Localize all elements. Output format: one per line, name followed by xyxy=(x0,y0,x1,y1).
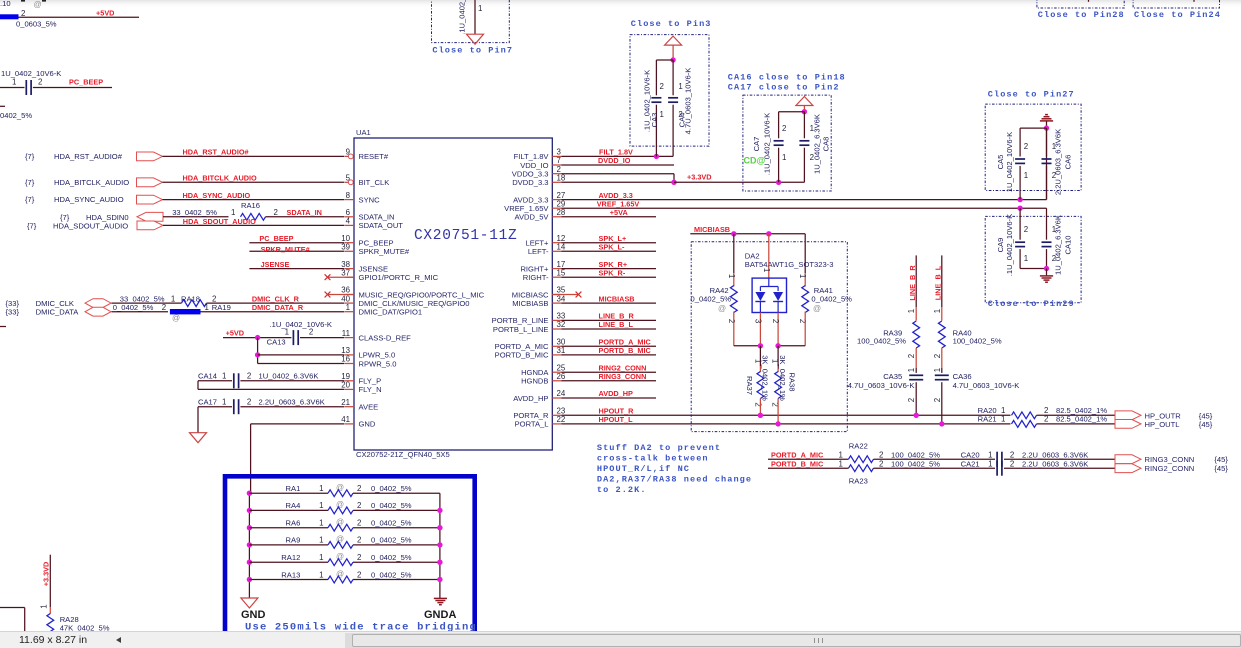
RA41 pin1 stub xyxy=(804,273,806,287)
IC pin 9 RESET# (left) xyxy=(345,155,348,157)
RA39 pin2 stub xyxy=(915,348,917,368)
wire CA20 to connector xyxy=(1004,458,1115,460)
svg-text:2: 2 xyxy=(907,398,916,402)
wire CA4 lower xyxy=(672,105,674,157)
svg-text:CA5: CA5 xyxy=(996,155,1005,170)
svg-text:1: 1 xyxy=(907,309,916,313)
svg-text:1: 1 xyxy=(839,459,843,468)
svg-text:RA16: RA16 xyxy=(241,201,260,210)
svg-text:RIGHT-: RIGHT- xyxy=(523,273,549,282)
wire CA9/CA10 bottoms xyxy=(1020,268,1046,270)
junction +5VD/CA13 xyxy=(255,335,260,340)
resistor RA42 xyxy=(730,286,737,313)
wire RA39 to CA35 xyxy=(915,368,917,373)
IC pin 29 VREF_1.65V (right) xyxy=(552,207,561,209)
svg-text:CA8: CA8 xyxy=(822,137,831,152)
IC pin 6 SDATA_IN (left) xyxy=(345,216,354,218)
svg-text:1U_0402_10V6-K: 1U_0402_10V6-K xyxy=(1005,132,1014,192)
svg-text:2: 2 xyxy=(21,9,25,18)
wire CA9 lower xyxy=(1019,249,1021,268)
svg-text:1: 1 xyxy=(933,368,942,372)
horizontal scrollbar xyxy=(345,633,1241,648)
wire RA41 to DA2-2 join xyxy=(778,345,805,347)
junction CA5/CA6 top xyxy=(1044,125,1049,130)
wire GNDA bus right xyxy=(439,493,441,598)
svg-text:2: 2 xyxy=(247,372,251,381)
wire CA5 upper xyxy=(1019,128,1021,156)
svg-text:HPOUT_L: HPOUT_L xyxy=(599,415,634,424)
svg-text:SPKR_MUTE#: SPKR_MUTE# xyxy=(261,245,310,254)
svg-text:1: 1 xyxy=(839,450,843,459)
svg-text:1: 1 xyxy=(222,398,226,407)
svg-text:1: 1 xyxy=(319,484,323,493)
no-connect X pin 36 xyxy=(325,292,331,298)
svg-text:0_0402_5%: 0_0402_5% xyxy=(371,536,412,545)
svg-text:41: 41 xyxy=(341,415,350,424)
wire CA10 upper xyxy=(1046,208,1048,240)
cut-off component stub at left edge xyxy=(0,105,5,107)
junction CA5 bottom xyxy=(1017,197,1022,202)
power stem xyxy=(672,45,674,60)
wire to ground xyxy=(474,0,476,34)
svg-text:1: 1 xyxy=(12,78,16,87)
svg-text:2: 2 xyxy=(771,319,780,323)
wire CA4 upper xyxy=(672,60,674,95)
resistor RA19 (selected, thick blue) xyxy=(170,309,201,314)
capacitor CA13 xyxy=(292,330,294,345)
capacitor CA6 xyxy=(1042,158,1052,160)
junction LPWR xyxy=(255,352,260,357)
svg-text:CLASS-D_REF: CLASS-D_REF xyxy=(359,333,412,342)
svg-text:2: 2 xyxy=(1024,142,1028,151)
svg-text:PORTA_L: PORTA_L xyxy=(515,420,549,429)
junction RA13 left xyxy=(247,577,252,582)
svg-text:VDD_IO: VDD_IO xyxy=(520,161,548,170)
svg-text:20: 20 xyxy=(341,381,350,390)
svg-text:CX20751-11Z: CX20751-11Z xyxy=(414,228,517,244)
IC pin 18 DVDD_3.3 (right) xyxy=(552,181,561,183)
svg-text:{45}: {45} xyxy=(1199,420,1213,429)
svg-text:4.7U_0603_10V6-K: 4.7U_0603_10V6-K xyxy=(684,68,693,135)
svg-text:0_0402_5%: 0_0402_5% xyxy=(113,303,154,312)
IC pin 38 JSENSE (left) xyxy=(345,268,354,270)
svg-text:2: 2 xyxy=(162,303,166,312)
svg-text:2: 2 xyxy=(1010,450,1014,459)
dashed box Close to Pin28 (cut) xyxy=(1037,0,1124,8)
off-page connector HDA_RST_AUDIO# xyxy=(137,152,163,161)
svg-text:2.2U_0603_6.3V6K: 2.2U_0603_6.3V6K xyxy=(259,398,325,407)
ground GND xyxy=(241,598,258,608)
svg-text:DMIC_DAT/GPIO1: DMIC_DAT/GPIO1 xyxy=(359,308,423,317)
svg-text:47K_0402_5%: 47K_0402_5% xyxy=(60,624,110,631)
svg-text:100_0402_5%: 100_0402_5% xyxy=(891,459,940,468)
svg-text:1: 1 xyxy=(1024,254,1028,263)
dashed box CA9/CA10 xyxy=(985,216,1081,302)
capacitor CA4 xyxy=(668,97,678,99)
svg-text:CA17 close to Pin2: CA17 close to Pin2 xyxy=(728,82,840,92)
wire down to ground xyxy=(197,407,199,433)
svg-text:RA13: RA13 xyxy=(281,570,300,579)
junction RA38/HPOUT_L xyxy=(775,421,780,426)
IC pin 11 CLASS-D_REF (left) xyxy=(345,337,354,339)
svg-text:RA21: RA21 xyxy=(978,415,997,424)
svg-text:PORTD_A_MIC: PORTD_A_MIC xyxy=(771,450,824,459)
svg-text:CA35: CA35 xyxy=(883,372,902,381)
svg-text:PORTD_B_MIC: PORTD_B_MIC xyxy=(771,459,824,468)
capacitor CA36 xyxy=(935,374,949,376)
wire CA5 lower xyxy=(1019,166,1021,200)
wire MICBIASB bus xyxy=(690,233,805,235)
wire AVDD_3.3 xyxy=(561,199,1046,201)
svg-text:0_0402_5%: 0_0402_5% xyxy=(371,570,412,579)
svg-text:CA36: CA36 xyxy=(953,372,972,381)
resistor R10 selected body (thick blue bar) xyxy=(0,14,19,19)
svg-text:HDA_RST_AUDIO#: HDA_RST_AUDIO# xyxy=(54,152,123,161)
svg-text:.1U_0402_10V6-K: .1U_0402_10V6-K xyxy=(763,113,772,176)
wire CA3 upper xyxy=(655,60,657,95)
resistor RA22 xyxy=(849,456,874,463)
wire HDA_SDOUT_AUDIO xyxy=(163,224,345,226)
wire DMIC_CLK_R xyxy=(207,302,345,304)
svg-text:CA10: CA10 xyxy=(1064,236,1073,255)
svg-text:RING3_CONN: RING3_CONN xyxy=(599,372,647,381)
svg-text:9: 9 xyxy=(346,148,351,157)
svg-text:MICBIASB: MICBIASB xyxy=(694,225,730,234)
svg-text:3K_0402_1%: 3K_0402_1% xyxy=(778,355,787,401)
svg-text:1: 1 xyxy=(907,368,916,372)
svg-text:BIT_CLK: BIT_CLK xyxy=(359,178,390,187)
IC pin 21 AVEE (left) xyxy=(345,406,354,408)
svg-text:32: 32 xyxy=(557,320,566,329)
svg-text:GPIO1/PORTC_R_MIC: GPIO1/PORTC_R_MIC xyxy=(359,273,439,282)
cut-off component marks at top edge xyxy=(21,0,25,2)
no-connect X pin 37 xyxy=(325,274,331,280)
svg-text:RING2_CONN: RING2_CONN xyxy=(1145,464,1195,473)
capacitor CA35 xyxy=(909,374,923,376)
wire LINE_B_L stub xyxy=(561,328,656,330)
wire to cap pin 1 xyxy=(0,87,25,89)
svg-text:15: 15 xyxy=(557,268,566,277)
svg-text:4.7U_0603_10V6-K: 4.7U_0603_10V6-K xyxy=(953,381,1020,390)
svg-text:.1U_0402_10V6-K: .1U_0402_10V6-K xyxy=(270,320,333,329)
svg-text:1: 1 xyxy=(319,501,323,510)
svg-text:34: 34 xyxy=(557,294,566,303)
svg-text:Use 250mils wide trace bridgin: Use 250mils wide trace bridging xyxy=(245,622,477,632)
svg-text:Close to Pin29: Close to Pin29 xyxy=(988,299,1075,309)
IC pin 40 DMIC_CLK/MUSIC_REQ/GPIO0 (left) xyxy=(345,302,354,304)
off-page connector HP_OUTR xyxy=(1115,411,1141,420)
junction RA12 left xyxy=(247,560,252,565)
wire PORTD_B_MIC stub xyxy=(561,354,656,356)
svg-text:Close to Pin3: Close to Pin3 xyxy=(631,19,712,29)
svg-text:1: 1 xyxy=(782,153,786,162)
RA38 pin2 wire xyxy=(777,399,779,424)
cut cap stub in Pin24 box xyxy=(1193,0,1195,2)
wire CA6 bottom riser xyxy=(1046,128,1048,200)
diode DA2-B xyxy=(773,292,783,301)
wire DMIC_DATA_R xyxy=(201,311,345,313)
svg-text:@: @ xyxy=(718,304,726,313)
wire SPK_R+ xyxy=(561,268,656,270)
IC pin 30 PORTD_A_MIC (right) xyxy=(552,345,561,347)
capacitor CA5 xyxy=(1015,158,1025,160)
svg-text:AVDD_HP: AVDD_HP xyxy=(513,394,548,403)
wire GND bus left xyxy=(248,493,250,598)
svg-text:39: 39 xyxy=(341,243,350,252)
RA38 pin1 stub xyxy=(777,366,779,372)
svg-text:2: 2 xyxy=(357,519,361,528)
junction CA9 top xyxy=(1017,206,1022,211)
svg-text:+3.3VD: +3.3VD xyxy=(42,562,51,587)
svg-text:1U_0402_10V6-K: 1U_0402_10V6-K xyxy=(1,69,61,78)
IC pin 12 LEFT+ (right) xyxy=(552,242,561,244)
resistor RA40 xyxy=(938,321,945,348)
svg-text:{45}: {45} xyxy=(1214,464,1228,473)
junction +3.3VD xyxy=(671,180,676,185)
svg-text:RING3_CONN: RING3_CONN xyxy=(1145,455,1195,464)
svg-text:1: 1 xyxy=(40,604,49,608)
power symbol (analog +) top of CA3/CA4 xyxy=(665,36,682,45)
wire CA6 lower xyxy=(1046,166,1048,200)
wire VDDO_3.3 xyxy=(561,173,674,175)
svg-text:+5VD: +5VD xyxy=(96,9,114,18)
resistor RA16 xyxy=(241,213,266,220)
svg-text:2: 2 xyxy=(38,78,42,87)
wire CA14 pin1 left xyxy=(198,380,232,382)
svg-text:1: 1 xyxy=(1024,171,1028,180)
svg-text:1: 1 xyxy=(1001,415,1005,424)
RA40 pin1 stub xyxy=(941,307,943,321)
svg-text:1U_0402_6.3V6K: 1U_0402_6.3V6K xyxy=(259,372,319,381)
wire +3.3VD to CA7/CA8 xyxy=(674,181,804,183)
svg-text:1U_0402_6.3V6K: 1U_0402_6.3V6K xyxy=(1054,215,1063,275)
wire DVDD_3.3 xyxy=(561,181,674,183)
svg-text:DMIC_DATA_R: DMIC_DATA_R xyxy=(252,303,304,312)
svg-text:0_0402_5%: 0_0402_5% xyxy=(811,295,852,304)
wire CA6 upper xyxy=(1046,128,1048,156)
svg-text:2.2U_0603_6.3V6K: 2.2U_0603_6.3V6K xyxy=(1022,459,1088,468)
svg-text:BAT54AWT1G_SOT323-3: BAT54AWT1G_SOT323-3 xyxy=(745,260,834,269)
svg-text:HDA_SYNC_AUDIO: HDA_SYNC_AUDIO xyxy=(183,191,251,200)
capacitor CA20 xyxy=(996,452,998,467)
IC pin 3 FILT_1.8V (right) xyxy=(552,155,561,157)
svg-text:.10: .10 xyxy=(0,0,11,8)
svg-text:2: 2 xyxy=(798,319,807,323)
junction CA3/FILT_1.8V xyxy=(654,154,659,159)
svg-text:3: 3 xyxy=(753,319,762,324)
svg-text:7: 7 xyxy=(557,156,561,165)
svg-text:+5VA: +5VA xyxy=(610,208,629,217)
wire LINE_B_R stub xyxy=(561,319,656,321)
wire PORTD_A_MIC xyxy=(768,458,849,460)
pin 36 stub xyxy=(328,294,354,296)
wire RA22 to CA20 xyxy=(874,458,996,460)
svg-text:PORTB_L_LINE: PORTB_L_LINE xyxy=(493,325,549,334)
svg-text:1: 1 xyxy=(798,274,807,278)
svg-text:100_0402_5%: 100_0402_5% xyxy=(953,336,1002,345)
wire LINE_B_R vertical xyxy=(915,255,917,307)
junction CA10 bottom xyxy=(1044,266,1049,271)
svg-text:2: 2 xyxy=(879,459,883,468)
svg-text:1: 1 xyxy=(231,208,235,217)
dashed box CA7/CA8 xyxy=(743,95,831,191)
wire RA23 to CA21 xyxy=(874,467,996,469)
junction DA2 pin1 top xyxy=(766,231,771,236)
svg-text:1: 1 xyxy=(727,274,736,278)
svg-text:SYNC: SYNC xyxy=(359,195,381,204)
RA40 pin2 stub xyxy=(941,348,943,368)
svg-text:100_0402_5%: 100_0402_5% xyxy=(891,450,940,459)
svg-text:1: 1 xyxy=(319,519,323,528)
off-page connector HDA_SDOUT_AUDIO xyxy=(137,221,163,230)
svg-text:CA13: CA13 xyxy=(267,338,286,347)
capacitor CA3 xyxy=(651,97,661,99)
svg-text:11: 11 xyxy=(342,329,350,338)
wire CA17 pin2 to AVEE xyxy=(240,406,344,408)
resistor RA39 xyxy=(913,321,920,348)
svg-text:1: 1 xyxy=(933,309,942,313)
svg-text:RA4: RA4 xyxy=(286,501,301,510)
svg-text:1: 1 xyxy=(478,4,482,13)
svg-text:CA16 close to Pin18: CA16 close to Pin18 xyxy=(728,72,846,82)
wire FILT_1.8V xyxy=(561,155,673,157)
IC pin 10 PC_BEEP (left) xyxy=(345,242,354,244)
wire CA3 lower xyxy=(655,105,657,157)
svg-text:82.5_0402_1%: 82.5_0402_1% xyxy=(1056,415,1107,424)
wire MICBIASB to RA41 xyxy=(804,234,806,273)
svg-text:RA12: RA12 xyxy=(281,553,300,562)
svg-text:CA3: CA3 xyxy=(650,113,659,128)
wire HPOUT_L xyxy=(561,423,1010,425)
IC pin 35 MICBIASC (right) xyxy=(552,294,561,296)
op-amp/codec IC UA1 body xyxy=(354,138,552,450)
svg-text:0_0402_5%: 0_0402_5% xyxy=(371,519,412,528)
wire CA36 to HPOUT xyxy=(941,382,943,424)
wire VREF_1.65V xyxy=(561,207,1046,209)
IC pin 31 PORTD_B_MIC (right) xyxy=(552,354,561,356)
IC pin 26 HGNDB (right) xyxy=(552,380,561,382)
wire HDA_SDIN0 to RA16 xyxy=(163,216,229,218)
svg-text:21: 21 xyxy=(341,398,350,407)
svg-text:1: 1 xyxy=(319,536,323,545)
wire joining pins 2/18 xyxy=(673,174,675,183)
svg-text:22: 22 xyxy=(557,415,566,424)
dashed box Close to Pin24 (cut) xyxy=(1133,0,1219,8)
junction RA6 left xyxy=(247,525,252,530)
svg-text:@: @ xyxy=(172,313,180,322)
svg-text:PC_BEEP: PC_BEEP xyxy=(259,234,293,243)
svg-text:+5VD: +5VD xyxy=(226,328,244,337)
svg-text:HDA_SYNC_AUDIO: HDA_SYNC_AUDIO xyxy=(54,195,124,204)
svg-text:RA38: RA38 xyxy=(788,373,797,392)
pin 35 stub xyxy=(552,294,578,296)
svg-text:HDA_BITCLK_AUDIO: HDA_BITCLK_AUDIO xyxy=(183,174,258,183)
svg-text:0402_5%: 0402_5% xyxy=(0,111,32,120)
junction RA4 right xyxy=(437,508,442,513)
analog ground top of CA5/CA6 xyxy=(1040,115,1053,121)
svg-text:RA37: RA37 xyxy=(745,376,754,395)
svg-text:SPK_R-: SPK_R- xyxy=(599,268,626,277)
dashed box Close to Pin7 xyxy=(432,0,510,43)
svg-text:HDA_SDOUT_AUDIO: HDA_SDOUT_AUDIO xyxy=(53,221,128,230)
svg-text:MICBIASB: MICBIASB xyxy=(599,294,635,303)
wire RA42 to DA2-3 join xyxy=(734,345,761,347)
svg-text:2: 2 xyxy=(933,398,942,402)
svg-text:RA9: RA9 xyxy=(286,536,301,545)
svg-text:JSENSE: JSENSE xyxy=(261,260,290,269)
partial dash mark xyxy=(0,326,6,328)
IC pin 24 AVDD_HP (right) xyxy=(552,397,561,399)
svg-text:cross-talk between: cross-talk between xyxy=(597,453,709,463)
wire SPKR_MUTE# xyxy=(249,250,344,252)
svg-text:DVDD_3.3: DVDD_3.3 xyxy=(512,178,548,187)
svg-text:SPK_L-: SPK_L- xyxy=(599,243,626,252)
svg-text:HDA_SDOUT_AUDIO: HDA_SDOUT_AUDIO xyxy=(183,217,256,226)
RA42 pin2 wire xyxy=(733,312,735,346)
IC pin 15 RIGHT- (right) xyxy=(552,276,561,278)
junction RA42 top xyxy=(731,231,736,236)
svg-text:2: 2 xyxy=(247,398,251,407)
capacitor CA14 xyxy=(233,373,235,388)
junction RA13 right xyxy=(437,577,442,582)
resistor RA41 xyxy=(802,286,809,313)
svg-text:CA7: CA7 xyxy=(752,137,761,152)
wire +5VA xyxy=(561,216,656,218)
IC pin 34 MICBIASB (right) xyxy=(552,302,561,304)
wire RA20 to connector xyxy=(1037,414,1116,416)
svg-text:14: 14 xyxy=(557,243,566,252)
cut cap stub in Pin28 box xyxy=(1088,0,1090,2)
DA2 pin 2 wire xyxy=(777,313,779,346)
svg-text:LINE_B_R: LINE_B_R xyxy=(908,265,917,301)
junction RA9 right xyxy=(437,542,442,547)
wire to pin 13 LPWR_5.0 xyxy=(258,354,345,356)
svg-text:2: 2 xyxy=(782,124,786,133)
wire RA40 to CA36 xyxy=(941,368,943,373)
capacitor CA21 xyxy=(996,461,998,476)
svg-text:RPWR_5.0: RPWR_5.0 xyxy=(359,359,397,368)
svg-text:GND: GND xyxy=(359,420,376,429)
svg-text:0_0402_5%: 0_0402_5% xyxy=(371,501,412,510)
wire HDA_SYNC_AUDIO xyxy=(163,199,345,201)
svg-text:HGNDB: HGNDB xyxy=(521,377,548,386)
capacitor CA17 xyxy=(233,399,235,414)
svg-text:Close to Pin27: Close to Pin27 xyxy=(988,90,1075,100)
capacitor CA8 xyxy=(799,140,809,142)
svg-text:{45}: {45} xyxy=(1214,455,1228,464)
wire to RA38 xyxy=(777,346,779,366)
wire pin 41 GND xyxy=(251,423,345,425)
svg-text:0_0402_5%: 0_0402_5% xyxy=(371,484,412,493)
svg-text:DMIC_DATA: DMIC_DATA xyxy=(36,308,80,317)
svg-text:2: 2 xyxy=(879,450,883,459)
wire corner bottom-left xyxy=(0,607,25,609)
svg-text:2: 2 xyxy=(357,501,361,510)
ground xyxy=(467,34,484,44)
svg-text:DVDD_IO: DVDD_IO xyxy=(598,156,631,165)
wire HDA_RST_AUDIO# xyxy=(163,155,345,157)
svg-text:33_0402_5%: 33_0402_5% xyxy=(172,208,217,217)
svg-text:0_0402_5%: 0_0402_5% xyxy=(371,553,412,562)
svg-text:24: 24 xyxy=(557,389,566,398)
junction RA9 left xyxy=(247,542,252,547)
resistor RA28 (cut) xyxy=(47,614,54,641)
wire RING2_CONN stub xyxy=(561,371,656,373)
junction CA7/CA8 top xyxy=(802,109,807,114)
wire LINE_B_L vertical xyxy=(941,255,943,307)
wire PORTD_B_MIC xyxy=(768,467,849,469)
svg-text:0_0603_5%: 0_0603_5% xyxy=(16,20,57,29)
